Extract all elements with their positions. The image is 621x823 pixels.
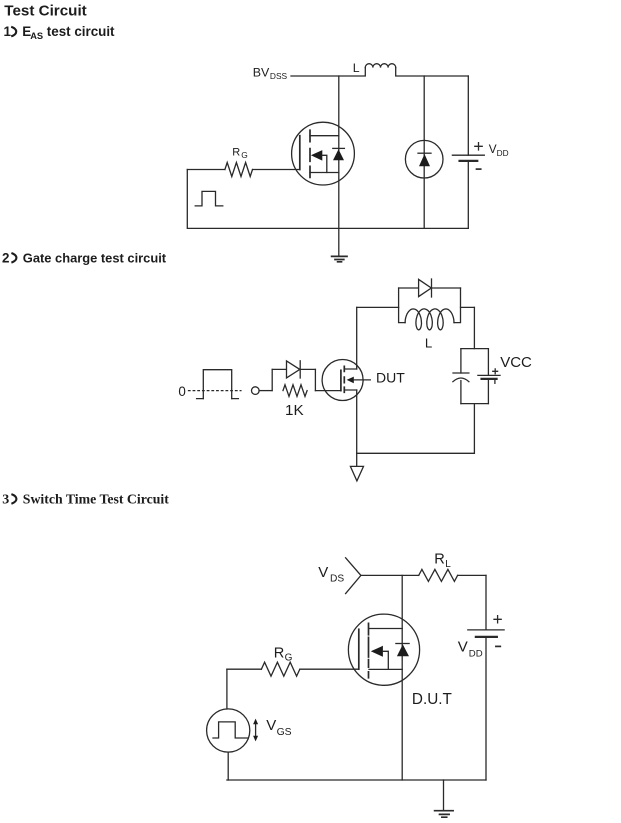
svg-text:DSS: DSS [270, 71, 288, 81]
svg-text:Switch Time Test Circuit: Switch Time Test Circuit [23, 492, 169, 507]
svg-text:G: G [285, 653, 293, 664]
svg-text:BV: BV [253, 65, 270, 79]
svg-text:DD: DD [469, 649, 483, 660]
svg-text:V: V [318, 564, 328, 581]
svg-text:R: R [434, 552, 445, 568]
svg-text:test circuit: test circuit [47, 24, 115, 39]
svg-text:1K: 1K [285, 402, 304, 419]
svg-text:1: 1 [4, 24, 12, 39]
svg-text:R: R [232, 146, 240, 158]
svg-text:Test Circuit: Test Circuit [4, 3, 86, 20]
svg-text:D.U.T: D.U.T [412, 691, 452, 708]
svg-text:R: R [274, 645, 285, 661]
svg-text:L: L [353, 61, 360, 75]
svg-text:V: V [458, 638, 468, 655]
svg-text:DS: DS [330, 574, 344, 585]
svg-text:2: 2 [2, 250, 9, 265]
svg-text:AS: AS [30, 31, 43, 41]
svg-text:VCC: VCC [500, 354, 532, 371]
svg-text:0: 0 [178, 384, 185, 399]
svg-text:L: L [445, 559, 451, 570]
svg-text:DUT: DUT [376, 370, 405, 386]
svg-text:L: L [425, 336, 432, 351]
svg-text:3: 3 [2, 493, 9, 508]
svg-text:G: G [241, 150, 248, 160]
svg-text:V: V [489, 142, 497, 156]
svg-text:DD: DD [497, 148, 509, 158]
svg-text:Gate charge test circuit: Gate charge test circuit [23, 250, 167, 265]
svg-text:GS: GS [277, 727, 292, 738]
svg-text:V: V [266, 717, 276, 734]
